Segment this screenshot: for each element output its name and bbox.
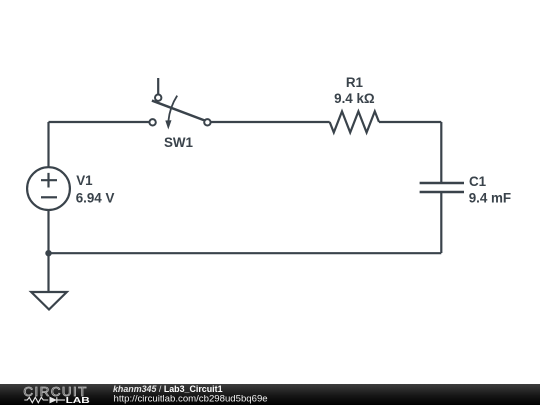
- switch SW1: [149, 95, 210, 130]
- svg-text:6.94 V: 6.94 V: [76, 190, 115, 205]
- svg-text:9.4 mF: 9.4 mF: [469, 190, 511, 205]
- svg-text:khanm345 / Lab3_Circuit1: khanm345 / Lab3_Circuit1: [113, 384, 223, 394]
- wire resistor to corner: [379, 121, 441, 123]
- svg-text:R1: R1: [346, 75, 364, 90]
- junction node: [45, 250, 51, 256]
- resistor R1: [330, 111, 379, 132]
- wire V1 top lead: [47, 122, 49, 167]
- wire corner down to capacitor: [440, 122, 442, 183]
- svg-text:C1: C1: [469, 174, 487, 189]
- wire V1 bottom lead: [47, 210, 49, 253]
- svg-text:SW1: SW1: [164, 135, 194, 150]
- wire capacitor bottom lead: [440, 192, 442, 253]
- ground: [31, 292, 67, 310]
- svg-text:V1: V1: [76, 173, 93, 188]
- wire switch to resistor: [210, 121, 330, 123]
- svg-text:9.4 kΩ: 9.4 kΩ: [334, 91, 375, 106]
- logo resistor-diode glyph: [24, 397, 65, 403]
- capacitor C1: [420, 183, 464, 192]
- wire ground lead: [47, 253, 49, 292]
- wire switch top stub: [157, 78, 159, 95]
- svg-text:LAB: LAB: [66, 396, 91, 405]
- voltage source V1: [27, 167, 70, 210]
- wire bottom horizontal: [49, 252, 442, 254]
- wire top-left horizontal: [49, 121, 151, 123]
- svg-text:http://circuitlab.com/cb298ud5: http://circuitlab.com/cb298ud5bq69e: [114, 394, 268, 405]
